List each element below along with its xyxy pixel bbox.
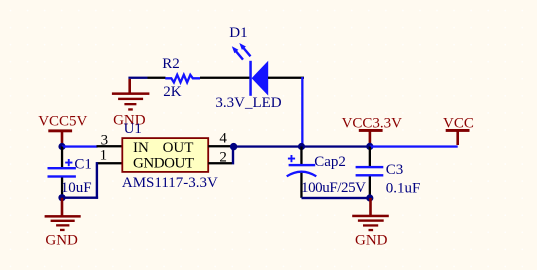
svg-text:GND: GND — [45, 232, 78, 248]
svg-text:C3: C3 — [386, 162, 404, 178]
svg-text:2K: 2K — [163, 84, 182, 100]
svg-text:U1: U1 — [124, 121, 142, 137]
svg-text:D1: D1 — [229, 25, 247, 41]
wire output bus (node C to VCC3.3V column) — [234, 145, 370, 147]
pin 4 of U1 — [208, 131, 233, 148]
svg-text:GNDOUT: GNDOUT — [133, 156, 194, 172]
svg-text:OUT: OUT — [163, 140, 194, 156]
svg-text:0.1uF: 0.1uF — [386, 180, 421, 196]
svg-text:3.3V_LED: 3.3V_LED — [215, 95, 281, 111]
ground (below C3) — [352, 198, 389, 249]
capacitor C3 — [356, 147, 421, 198]
wire R2 to D1 (black pin run) — [200, 77, 250, 79]
ground (below C1) — [45, 198, 81, 249]
svg-text:C1: C1 — [74, 157, 92, 173]
svg-text:4: 4 — [219, 131, 227, 147]
node C (U1 output junction) — [230, 143, 237, 150]
node D (LED / Cap2 junction) — [298, 143, 305, 150]
wire VCC5V node to U1 pin 3 — [62, 145, 98, 147]
svg-text:VCC: VCC — [443, 116, 474, 132]
LED D1 — [215, 25, 304, 111]
wire D1 down to output bus — [301, 77, 303, 147]
svg-text:3: 3 — [101, 133, 109, 149]
svg-text:R2: R2 — [162, 56, 180, 72]
wire R2 ground corner — [128, 77, 147, 79]
pin 1 of U1 — [97, 148, 124, 165]
wire VCC3.3V node to VCC — [370, 145, 458, 147]
svg-text:1: 1 — [100, 148, 108, 164]
capacitor Cap2 — [287, 147, 366, 198]
svg-text:VCC5V: VCC5V — [38, 113, 87, 129]
wire pin 2 up to pin 4 node — [232, 147, 234, 165]
node E (VCC3.3V junction) — [366, 143, 373, 150]
node A (VCC5V junction) — [58, 143, 65, 150]
component U1 body — [122, 121, 218, 191]
svg-text:100uF/25V: 100uF/25V — [301, 180, 366, 196]
ground (at R2 input) — [112, 79, 149, 129]
svg-text:Cap2: Cap2 — [314, 154, 346, 170]
resistor R2 — [148, 56, 201, 100]
svg-text:10uF: 10uF — [61, 180, 92, 196]
power symbol VCC5V — [38, 113, 87, 146]
svg-text:VCC3.3V: VCC3.3V — [342, 116, 403, 132]
capacitor C1 — [48, 147, 92, 199]
svg-text:IN: IN — [133, 140, 149, 156]
svg-text:2: 2 — [219, 150, 227, 166]
node F (C3 bottom junction) — [366, 194, 373, 201]
svg-text:AMS1117-3.3V: AMS1117-3.3V — [122, 175, 218, 191]
wire Cap2 bottom to C3 bottom — [302, 197, 370, 199]
pin 3 of U1 — [97, 133, 124, 149]
node B (C1 bottom junction) — [58, 194, 65, 201]
power symbol VCC — [443, 116, 474, 145]
pin 2 of U1 — [208, 150, 232, 166]
wire U1 pin 1 down and left to C1 bottom — [62, 162, 98, 199]
power symbol VCC3.3V — [342, 116, 403, 147]
svg-text:GND: GND — [355, 233, 388, 249]
